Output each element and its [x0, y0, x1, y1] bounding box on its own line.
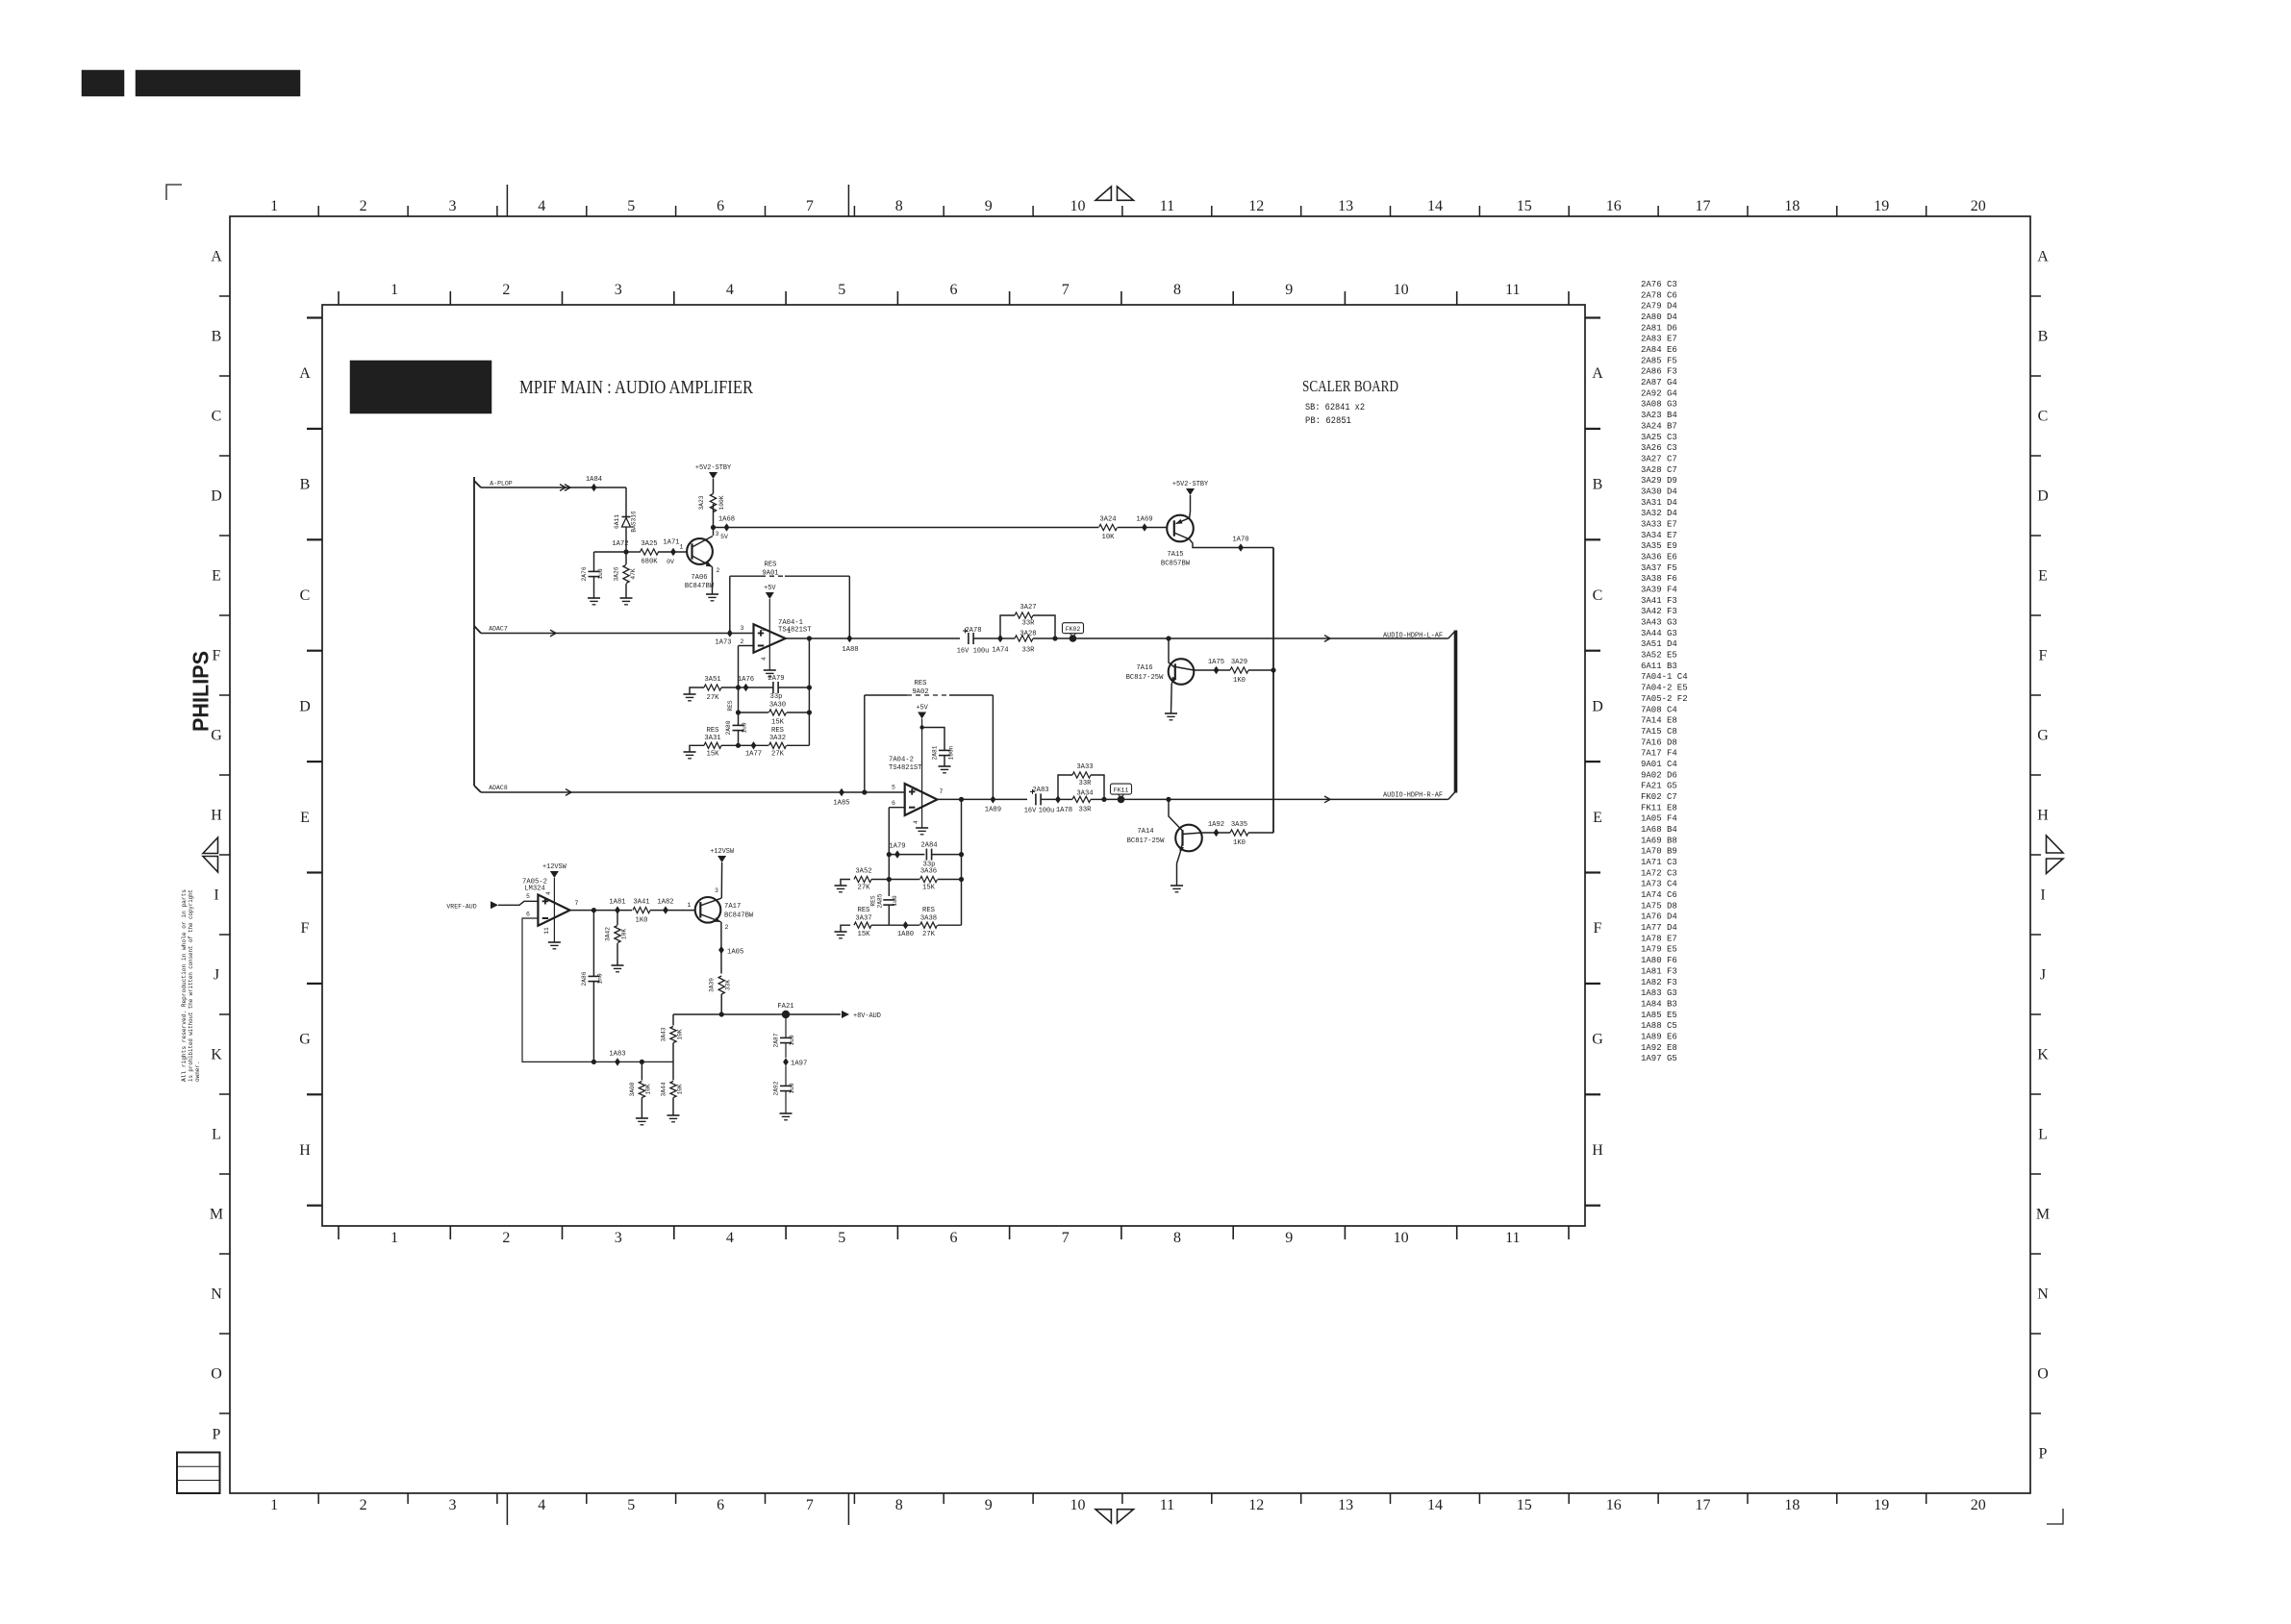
svg-text:8: 8 — [895, 198, 903, 214]
fold mark triangles left — [203, 837, 218, 872]
ground under 3A42 — [612, 964, 624, 966]
svg-text:2A86: 2A86 — [581, 971, 588, 986]
svg-text:1A76: 1A76 — [738, 676, 754, 684]
svg-text:17: 17 — [1696, 198, 1711, 214]
svg-text:7A06: 7A06 — [691, 574, 707, 582]
svg-text:2A80 D4: 2A80 D4 — [1641, 312, 1677, 322]
wire output R net — [1104, 798, 1448, 800]
svg-text:1: 1 — [390, 1230, 398, 1246]
svg-text:33R: 33R — [1079, 780, 1093, 787]
node 1A05 — [718, 946, 724, 954]
power branch to 2A81 — [919, 725, 923, 729]
resistor 3A26 47K — [625, 552, 627, 564]
svg-text:B: B — [300, 477, 311, 493]
svg-text:B: B — [2038, 329, 2049, 345]
svg-text:3A36: 3A36 — [920, 868, 937, 876]
svg-text:1n0: 1n0 — [597, 973, 604, 984]
svg-text:9A02 D6: 9A02 D6 — [1641, 770, 1677, 780]
svg-text:BAS316: BAS316 — [631, 511, 638, 533]
svg-text:2A76: 2A76 — [581, 566, 588, 581]
svg-text:3A38: 3A38 — [920, 915, 937, 923]
svg-text:3A32: 3A32 — [769, 735, 786, 742]
svg-text:FA21: FA21 — [777, 1003, 793, 1011]
svg-text:1A70 B9: 1A70 B9 — [1641, 847, 1677, 857]
svg-text:1u0: 1u0 — [789, 1035, 795, 1045]
svg-text:3A35 E9: 3A35 E9 — [1641, 541, 1677, 551]
svg-text:7A14: 7A14 — [1137, 828, 1153, 836]
svg-text:All rights reserved. Reproduct: All rights reserved. Reproduction in who… — [181, 889, 188, 1082]
svg-text:3: 3 — [615, 282, 622, 298]
junction bus 3A29 — [1271, 667, 1275, 672]
svg-text:12: 12 — [1248, 1497, 1264, 1513]
node 1A85 — [839, 788, 844, 796]
svg-text:2: 2 — [360, 1497, 367, 1513]
power +5V2-STBY at 3A23 — [709, 472, 718, 479]
svg-text:3A29 D9: 3A29 D9 — [1641, 476, 1677, 486]
svg-text:3A27: 3A27 — [1020, 604, 1036, 612]
svg-text:3A37: 3A37 — [855, 915, 871, 923]
wire diode to node 1A72 — [625, 527, 627, 552]
svg-text:13: 13 — [1338, 1497, 1353, 1513]
svg-text:6: 6 — [717, 1497, 724, 1513]
ground under 7A04-2 — [916, 827, 928, 829]
svg-text:1A77: 1A77 — [745, 751, 762, 759]
svg-text:33p: 33p — [770, 693, 783, 701]
svg-text:2: 2 — [502, 282, 510, 298]
svg-text:27K: 27K — [771, 751, 785, 759]
svg-text:SB: 62841 x2: SB: 62841 x2 — [1305, 403, 1365, 413]
svg-text:2A79 D4: 2A79 D4 — [1641, 302, 1677, 312]
output wire 7A05-2 — [570, 910, 633, 912]
arrow on R net — [1324, 796, 1330, 803]
resistor 3A24 10K — [1099, 524, 1118, 530]
svg-text:E: E — [1593, 810, 1602, 826]
svg-text:I: I — [214, 887, 218, 904]
svg-text:3A26 C3: 3A26 C3 — [1641, 443, 1677, 453]
svg-text:3A28 C7: 3A28 C7 — [1641, 465, 1677, 475]
capacitor 2A86 1n0 — [592, 911, 594, 977]
svg-text:TS4821ST: TS4821ST — [778, 627, 812, 635]
svg-text:1A69 B8: 1A69 B8 — [1641, 836, 1677, 845]
svg-text:4: 4 — [538, 1497, 545, 1513]
page corner mark top-left — [166, 185, 182, 200]
svg-text:BC857BW: BC857BW — [1161, 561, 1191, 568]
svg-text:3A44 G3: 3A44 G3 — [1641, 629, 1677, 638]
svg-text:E: E — [2038, 568, 2048, 585]
resistor 3A44 10K — [672, 1062, 674, 1080]
svg-text:3A39: 3A39 — [709, 978, 716, 992]
svg-text:7A14 E8: 7A14 E8 — [1641, 716, 1677, 726]
wire 7A14 collector — [1202, 832, 1230, 834]
svg-text:H: H — [2037, 808, 2049, 824]
svg-text:33R: 33R — [1022, 647, 1036, 655]
svg-text:100u: 100u — [1039, 808, 1055, 815]
svg-text:4: 4 — [913, 820, 919, 824]
svg-text:A: A — [299, 365, 311, 382]
svg-text:5V: 5V — [720, 534, 728, 540]
node FA21 — [782, 1011, 790, 1018]
node 1A97 — [783, 1058, 789, 1065]
svg-text:N: N — [211, 1287, 222, 1303]
svg-text:2: 2 — [502, 1230, 510, 1246]
svg-text:4: 4 — [761, 657, 768, 661]
svg-text:N: N — [2037, 1287, 2049, 1303]
svg-text:7A04-2 E5: 7A04-2 E5 — [1641, 684, 1688, 693]
svg-text:3A38 F6: 3A38 F6 — [1641, 574, 1677, 584]
svg-text:G: G — [2037, 728, 2049, 744]
svg-text:D: D — [2037, 488, 2049, 505]
outer frame column numbers — [270, 198, 1986, 1513]
svg-text:1u0: 1u0 — [789, 1083, 795, 1093]
svg-text:3: 3 — [449, 1497, 457, 1513]
svg-text:7A04-1 C4: 7A04-1 C4 — [1641, 672, 1688, 682]
wire to capacitor 2A76 — [594, 551, 627, 553]
node 1A80 — [903, 921, 909, 929]
svg-text:FK11: FK11 — [1114, 787, 1129, 793]
svg-text:1A68: 1A68 — [718, 516, 735, 524]
svg-text:1A68 B4: 1A68 B4 — [1641, 825, 1677, 835]
svg-text:1u0: 1u0 — [742, 722, 748, 733]
svg-text:10K: 10K — [1102, 534, 1116, 541]
svg-text:2A87 G4: 2A87 G4 — [1641, 378, 1677, 387]
svg-text:1A75: 1A75 — [1208, 659, 1224, 666]
svg-text:15K: 15K — [771, 719, 785, 727]
svg-text:3: 3 — [615, 1230, 622, 1246]
svg-text:2A86 F3: 2A86 F3 — [1641, 367, 1677, 377]
svg-text:10: 10 — [1394, 282, 1409, 298]
resistor 3A25 680K — [641, 549, 659, 555]
svg-text:BC817-25W: BC817-25W — [1127, 837, 1166, 845]
svg-text:I: I — [2040, 887, 2045, 904]
svg-text:2A81: 2A81 — [932, 745, 939, 760]
svg-text:2: 2 — [725, 924, 729, 931]
wire inverting input 7A04-1 — [739, 645, 754, 647]
wire 7A16 emitter ground — [1171, 684, 1173, 713]
svg-text:100K: 100K — [718, 495, 725, 510]
svg-text:7: 7 — [806, 1497, 814, 1513]
svg-text:11: 11 — [543, 927, 550, 935]
node 1A70 — [1238, 543, 1244, 551]
capacitor 2A92 1u0 — [785, 1066, 787, 1087]
svg-text:F: F — [1594, 920, 1602, 937]
svg-text:H: H — [299, 1142, 311, 1159]
off-page connector bracket — [1448, 631, 1455, 638]
capacitor 2A80 1u0 — [733, 724, 744, 726]
svg-text:10K: 10K — [677, 1029, 684, 1039]
svg-text:1A78 E7: 1A78 E7 — [1641, 934, 1677, 943]
svg-text:33R: 33R — [1079, 807, 1093, 814]
svg-text:C: C — [1593, 587, 1603, 604]
transistor 7A06 BC847BW — [687, 538, 713, 564]
ladder 2 feedback vertical — [961, 799, 963, 925]
svg-text:3: 3 — [741, 625, 744, 632]
svg-text:1A80 F6: 1A80 F6 — [1641, 956, 1677, 965]
svg-text:2A83 E7: 2A83 E7 — [1641, 335, 1677, 344]
node 1A76 — [743, 684, 749, 691]
resistor 3A23 100K — [713, 504, 715, 528]
wire 7A14 emitter ground — [1177, 853, 1181, 886]
svg-text:G: G — [299, 1032, 311, 1048]
svg-text:9A02: 9A02 — [912, 688, 928, 696]
transistor 7A17 BC847BW — [695, 897, 721, 923]
node 1A81 — [615, 906, 620, 913]
svg-text:11: 11 — [1505, 282, 1520, 298]
svg-text:SCALER BOARD: SCALER BOARD — [1302, 377, 1398, 395]
svg-text:ADAC7: ADAC7 — [489, 626, 508, 633]
svg-text:4: 4 — [726, 282, 734, 298]
svg-text:10K: 10K — [677, 1084, 684, 1094]
svg-text:14: 14 — [1427, 1497, 1443, 1513]
resistor 3A38 27K — [920, 922, 938, 928]
svg-text:7A05-2 F2: 7A05-2 F2 — [1641, 694, 1688, 704]
node 1A79 — [894, 850, 900, 858]
node 1A89 — [991, 795, 996, 803]
transistor 7A15 BC857BW — [1167, 515, 1194, 542]
svg-text:C: C — [212, 409, 222, 425]
svg-text:15: 15 — [1517, 198, 1532, 214]
svg-text:6: 6 — [892, 800, 895, 807]
svg-text:RES: RES — [707, 727, 719, 735]
svg-text:H: H — [1592, 1142, 1603, 1159]
power +5V at 7A04-2 — [918, 712, 926, 719]
wire 7A17 emitter — [720, 922, 722, 974]
resistor 3A51 27K — [704, 685, 721, 690]
outer border frame — [230, 216, 2030, 1493]
svg-text:2: 2 — [360, 198, 367, 214]
svg-text:18: 18 — [1784, 198, 1800, 214]
outer frame row ticks — [219, 296, 2041, 1413]
ground under 7A04-1 — [764, 669, 776, 671]
svg-text:L: L — [2038, 1127, 2048, 1143]
wire output L net — [1055, 637, 1448, 639]
svg-text:20: 20 — [1971, 198, 1986, 214]
redacted title block box — [350, 361, 491, 413]
svg-text:P: P — [213, 1427, 221, 1443]
svg-text:1A76 D4: 1A76 D4 — [1641, 912, 1677, 922]
svg-text:3A30 D4: 3A30 D4 — [1641, 487, 1677, 497]
svg-text:1A71: 1A71 — [663, 539, 679, 547]
op-amp 7A04-2 TS4821ST — [921, 719, 923, 829]
svg-text:3A41: 3A41 — [633, 899, 649, 907]
svg-text:2A92: 2A92 — [773, 1081, 780, 1095]
svg-text:1: 1 — [390, 282, 398, 298]
ground under 3A44 — [667, 1114, 680, 1116]
power +12VSW at 7A17 — [718, 856, 726, 862]
svg-text:16V: 16V — [957, 648, 969, 656]
svg-text:is prohibited without the writ: is prohibited without the written consen… — [188, 889, 194, 1082]
svg-text:AUDIO-HDPH-L-AF: AUDIO-HDPH-L-AF — [1383, 632, 1443, 639]
ladder 2 row 2: ground — [841, 880, 850, 887]
resistor 3A41 1K0 — [633, 908, 650, 913]
input bus line — [473, 477, 475, 786]
svg-text:RES: RES — [765, 562, 777, 569]
svg-text:1A81 F3: 1A81 F3 — [1641, 966, 1677, 976]
svg-text:A: A — [1592, 365, 1603, 382]
svg-text:3A28: 3A28 — [1020, 631, 1036, 638]
svg-text:2A84: 2A84 — [920, 842, 937, 850]
svg-text:1A05: 1A05 — [727, 949, 743, 957]
svg-text:+5V: +5V — [764, 585, 776, 592]
wire 7A15 collector — [1190, 539, 1273, 548]
junction at output ladder — [807, 636, 812, 640]
svg-text:2: 2 — [741, 638, 744, 645]
svg-text:1A85 E5: 1A85 E5 — [1641, 1011, 1677, 1020]
svg-text:3A52: 3A52 — [855, 868, 871, 876]
wire collector 7A06 — [713, 528, 715, 537]
svg-text:3A26: 3A26 — [614, 566, 620, 581]
svg-text:5: 5 — [627, 1497, 635, 1513]
node 1A72 junction — [623, 549, 628, 554]
svg-text:3A36 E6: 3A36 E6 — [1641, 553, 1677, 562]
svg-text:+5V2-STBY: +5V2-STBY — [695, 464, 732, 472]
svg-text:B: B — [1593, 477, 1603, 493]
wire 7A16 collector — [1194, 669, 1230, 671]
node 1A82 — [663, 906, 668, 913]
svg-text:P: P — [2039, 1446, 2048, 1462]
svg-text:1A73 C4: 1A73 C4 — [1641, 880, 1677, 889]
svg-text:7: 7 — [1062, 1230, 1070, 1246]
svg-text:7A04-2: 7A04-2 — [889, 757, 914, 764]
outer frame column ticks bottom — [318, 1493, 1926, 1525]
node 1A84 — [592, 484, 597, 491]
node FK11 — [1111, 784, 1132, 794]
revision table box — [177, 1453, 220, 1494]
svg-text:6A11 B3: 6A11 B3 — [1641, 662, 1677, 671]
svg-text:7: 7 — [1062, 282, 1070, 298]
svg-text:D: D — [299, 698, 311, 714]
svg-text:9: 9 — [985, 198, 993, 214]
svg-text:+5V: +5V — [916, 705, 928, 712]
svg-text:O: O — [211, 1366, 222, 1383]
svg-text:3A34 E7: 3A34 E7 — [1641, 531, 1677, 540]
svg-text:C: C — [300, 587, 311, 604]
svg-text:8: 8 — [895, 1497, 903, 1513]
svg-text:1A81: 1A81 — [609, 899, 625, 907]
svg-text:3A33 E7: 3A33 E7 — [1641, 520, 1677, 530]
svg-text:A: A — [211, 249, 222, 265]
svg-text:3A23 B4: 3A23 B4 — [1641, 411, 1677, 420]
svg-text:9: 9 — [1285, 282, 1293, 298]
node 1A77 — [751, 741, 757, 749]
node 1A88 — [846, 635, 852, 642]
svg-text:5: 5 — [838, 1230, 845, 1246]
power +12VSW at 7A05-2 — [550, 871, 559, 878]
ladder 2 row 1 — [887, 852, 892, 857]
parallel resistors 3A27 3A28 33R — [1000, 615, 1015, 638]
svg-text:7: 7 — [575, 900, 579, 907]
ladder 1 row 1: ground — [690, 687, 704, 694]
svg-text:1A73: 1A73 — [715, 639, 731, 647]
svg-text:MPIF MAIN : AUDIO AMPLIFIER: MPIF MAIN : AUDIO AMPLIFIER — [519, 377, 754, 398]
inner frame column numbers — [390, 282, 1520, 1246]
svg-text:2A80: 2A80 — [725, 720, 732, 735]
svg-text:G: G — [1592, 1032, 1603, 1048]
svg-text:3A24 B7: 3A24 B7 — [1641, 421, 1677, 431]
svg-text:1A74: 1A74 — [992, 647, 1008, 655]
svg-text:D: D — [211, 488, 222, 505]
capacitor 2A81 100n — [939, 749, 950, 751]
svg-text:3A42 F3: 3A42 F3 — [1641, 607, 1677, 616]
svg-text:L: L — [212, 1127, 221, 1143]
svg-text:ADAC8: ADAC8 — [489, 785, 508, 791]
svg-text:J: J — [214, 967, 219, 984]
svg-text:3A51: 3A51 — [704, 676, 720, 684]
svg-text:2A85: 2A85 — [877, 893, 884, 908]
svg-text:27K: 27K — [707, 694, 720, 702]
svg-text:RES: RES — [858, 907, 870, 914]
vertical bus from 1A70 — [1272, 548, 1274, 834]
resistor 3A43 10K — [672, 1014, 674, 1026]
svg-text:20: 20 — [1971, 1497, 1986, 1513]
svg-text:2A92 G4: 2A92 G4 — [1641, 388, 1677, 398]
wire divider row FA21 — [673, 1013, 841, 1015]
outer frame column ticks top — [318, 185, 1926, 216]
svg-text:3A32 D4: 3A32 D4 — [1641, 509, 1677, 518]
ground under 3A26 — [620, 597, 633, 599]
svg-text:5: 5 — [627, 198, 635, 214]
svg-text:1A75 D8: 1A75 D8 — [1641, 901, 1677, 911]
output wire 7A04-1 — [786, 637, 960, 639]
ladder 1 vertical inverting node — [738, 687, 740, 726]
svg-text:3A43 G3: 3A43 G3 — [1641, 618, 1677, 628]
svg-text:1A89: 1A89 — [985, 807, 1001, 814]
ladder 1 row 3: ground — [690, 745, 704, 752]
svg-text:1A92 E8: 1A92 E8 — [1641, 1043, 1677, 1053]
resistor 3A37 15K — [854, 922, 871, 928]
svg-text:16V: 16V — [1024, 808, 1037, 815]
svg-text:1A84 B3: 1A84 B3 — [1641, 999, 1677, 1009]
svg-text:10: 10 — [1070, 1497, 1086, 1513]
inner border frame — [322, 305, 1585, 1226]
svg-text:3A44: 3A44 — [661, 1082, 667, 1096]
ground under 3A08 — [636, 1117, 648, 1119]
svg-text:6: 6 — [526, 912, 530, 918]
ladder 2 row 3: ground — [841, 925, 850, 932]
svg-text:1u0: 1u0 — [892, 895, 898, 906]
svg-text:1A74 C6: 1A74 C6 — [1641, 890, 1677, 900]
svg-text:8: 8 — [761, 627, 768, 631]
svg-text:2A81 D6: 2A81 D6 — [1641, 323, 1677, 333]
svg-text:+8V-AUD: +8V-AUD — [853, 1012, 881, 1020]
svg-text:K: K — [211, 1047, 222, 1063]
svg-text:15: 15 — [1517, 1497, 1532, 1513]
svg-text:7A08 C4: 7A08 C4 — [1641, 705, 1677, 714]
wire 7A15 emitter to power — [1189, 495, 1192, 518]
svg-text:5: 5 — [526, 893, 530, 900]
svg-text:+12VSW: +12VSW — [710, 848, 735, 856]
fold mark triangles bottom — [1095, 1510, 1134, 1523]
svg-text:FK02: FK02 — [1066, 626, 1081, 633]
wire 3A25 to 1A71 — [658, 551, 687, 553]
capacitor 2A87 1u0 — [785, 1014, 787, 1038]
svg-text:2A85 F5: 2A85 F5 — [1641, 356, 1677, 365]
svg-text:7A16 D8: 7A16 D8 — [1641, 737, 1677, 747]
wire 2A76 to ground — [593, 577, 595, 599]
capacitor 2A85 1u0 — [883, 899, 894, 901]
arrow on L net — [1324, 636, 1330, 642]
svg-text:C: C — [2038, 409, 2049, 425]
svg-text:680K: 680K — [641, 559, 658, 566]
svg-text:1A05 F4: 1A05 F4 — [1641, 814, 1677, 824]
svg-text:M: M — [2036, 1207, 2050, 1223]
svg-text:1A72 C3: 1A72 C3 — [1641, 868, 1677, 878]
svg-text:12: 12 — [1248, 198, 1264, 214]
svg-text:27K: 27K — [922, 931, 936, 938]
svg-text:1A79: 1A79 — [889, 843, 905, 851]
wire 1A72 to 3A25 — [626, 551, 641, 553]
svg-text:FA21 G5: FA21 G5 — [1641, 782, 1677, 791]
svg-text:14: 14 — [1427, 198, 1443, 214]
